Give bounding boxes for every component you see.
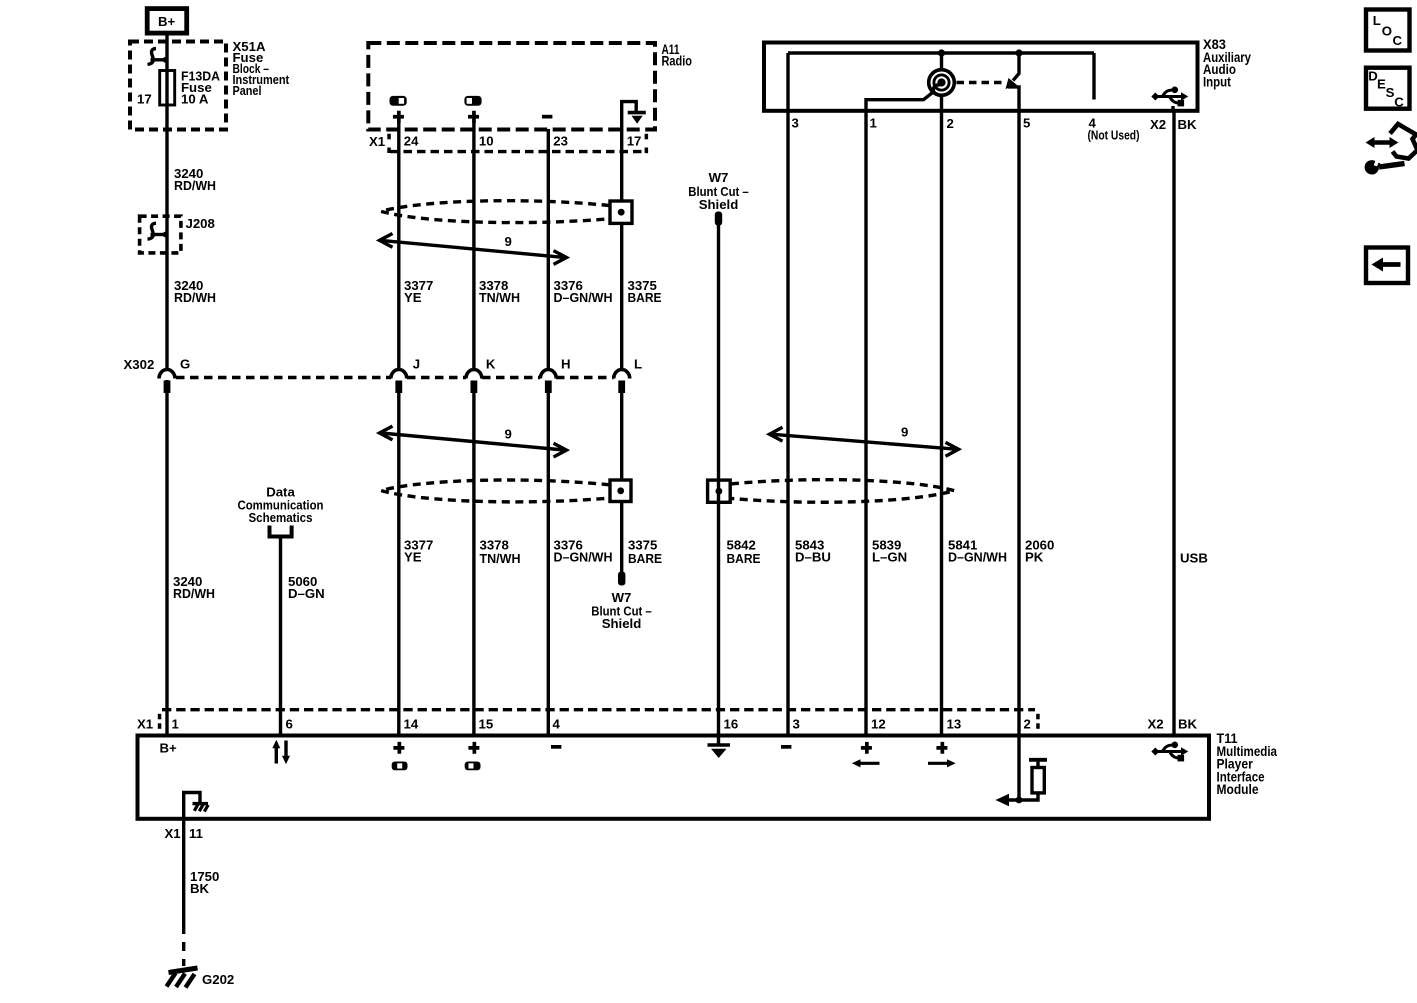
svg-text:1: 1 [172,717,179,732]
svg-text:2: 2 [947,116,954,131]
svg-text:12: 12 [871,717,886,732]
svg-text:Module: Module [1217,782,1259,797]
USB receptacle icon in T11 [1151,742,1188,762]
wire 1750 BK to ground [182,820,185,925]
svg-text:D–GN/WH: D–GN/WH [948,550,1007,565]
blunt cut terminal W7 (top of 5842 shield) [688,170,749,226]
svg-text:4: 4 [553,717,561,732]
svg-text:B+: B+ [160,741,178,756]
node B+ battery feed [147,9,187,33]
svg-text:C: C [1393,33,1403,48]
blunt cut terminal W7 (bottom of 3375 shield) [591,572,652,632]
node junction dot pin 2 [938,49,945,56]
shield drain terminal (middle left) on 3375 [610,480,631,502]
wire 5843 D-BU X83 pin 3 to T11 [786,112,789,735]
svg-text:10 A: 10 A [181,92,209,107]
wire X302 J to T11 pin 14 [397,381,400,736]
svg-text:X1: X1 [165,826,181,841]
svg-text:BARE: BARE [628,551,662,566]
T11 connector pin row X1 [137,710,1198,732]
wire 5842 BARE from W7 to T11 pin 16 [717,224,720,735]
T11 pin 2 internal resistor with arrow [996,735,1048,806]
twisted-leads symbol (top) with count 9 [380,234,567,265]
wire 5841 D-GN/WH X83 pin 2 to T11 [940,112,943,735]
svg-text:16: 16 [724,717,739,732]
twisted-leads symbol (middle right) with count 9 [770,425,959,457]
icon back arrow box [1366,248,1408,284]
svg-text:USB: USB [1180,551,1208,566]
svg-text:13: 13 [947,717,962,732]
svg-text:TN/WH: TN/WH [480,551,521,566]
shield drain terminal (middle right) on 5842 [708,480,731,502]
radio internal ground pin 17 [622,102,646,130]
svg-text:L: L [1373,13,1381,28]
svg-text:2: 2 [1024,717,1031,732]
svg-text:G: G [180,357,190,372]
radio speaker plug icon pin 24 [390,96,407,106]
svg-text:BK: BK [1178,717,1198,732]
svg-text:H: H [561,357,571,372]
svg-text:C: C [1394,95,1404,110]
wire X302 to T11 pin 1 [165,380,168,735]
radio - polarity pin 23 [542,115,552,119]
T11 pin 16 internal ground [708,735,731,758]
icon LOC box [1366,10,1410,51]
wire X302 K to T11 pin 15 [472,381,475,736]
svg-text:Radio: Radio [662,54,693,69]
shield ellipse (top) [381,201,610,223]
svg-text:RD/WH: RD/WH [174,290,216,305]
svg-text:L–GN: L–GN [872,550,907,565]
USB receptacle icon in X83 [1151,87,1188,113]
svg-text:PK: PK [1025,550,1044,565]
svg-text:10: 10 [479,134,494,149]
svg-text:X1: X1 [137,717,153,732]
svg-text:11: 11 [189,826,203,841]
svg-text:1: 1 [870,116,877,131]
X302 terminal J [391,357,420,394]
svg-text:W7: W7 [709,170,729,185]
svg-text:Input: Input [1203,75,1231,90]
T11 pin 4 - polarity [551,745,561,749]
svg-text:9: 9 [505,427,512,442]
X302 terminal G [159,357,190,394]
radio speaker plug icon pin 10 [464,96,481,106]
wire 2060 PK X83 pin 5 to T11 [1017,112,1020,735]
svg-text:K: K [486,357,496,372]
wire X302 H to T11 pin 4 [547,381,550,736]
wire 5839 L-GN X83 pin 1 to T11 [864,112,867,735]
module T11 box [138,736,1210,819]
svg-text:17: 17 [137,92,152,107]
T11 pin 3 - polarity [781,745,791,749]
icon DESC box [1366,68,1410,110]
wire radio pin 17 to X302 L, 3375 BARE [620,129,623,368]
svg-text:BARE: BARE [628,290,662,305]
svg-text:6: 6 [286,717,293,732]
svg-text:15: 15 [479,717,494,732]
audio jack tip-ring-sleeve symbol [929,53,955,112]
wire radio pin 23 to X302 H, 3376 D-GN/WH [547,129,550,368]
shield ellipse (middle right) [731,480,955,503]
node Data Communication Schematics [238,485,324,537]
X302 terminal K [466,357,496,394]
twisted-leads symbol (middle left) with count 9 [380,426,567,457]
svg-text:D–GN/WH: D–GN/WH [554,290,613,305]
svg-text:23: 23 [553,134,568,149]
svg-text:D–GN: D–GN [288,586,325,601]
svg-text:9: 9 [901,425,908,440]
radio connector pin row X1 [369,134,648,154]
svg-text:O: O [1382,24,1392,39]
wire radio pin 10 to X302 K, 3378 TN/WH [472,121,475,368]
svg-text:X1: X1 [369,134,385,149]
svg-text:X2: X2 [1150,117,1166,132]
T11 pin 15 + and plug icon [465,742,481,770]
svg-text:J208: J208 [186,216,215,231]
ground G202 [167,968,235,988]
splice J208 [140,216,215,253]
svg-text:BK: BK [190,881,210,896]
icon jump navigation (arrows and wrench) [1366,124,1417,173]
svg-text:BK: BK [1178,117,1198,132]
svg-text:RD/WH: RD/WH [174,178,216,193]
svg-text:9: 9 [505,234,512,249]
svg-text:X302: X302 [124,357,155,372]
svg-text:S: S [1386,85,1395,100]
svg-text:TN/WH: TN/WH [479,290,520,305]
fuse F13DA [160,71,175,106]
svg-text:24: 24 [404,134,419,149]
T11 pin 6 serial data arrows [272,740,290,764]
svg-text:D–BU: D–BU [795,550,831,565]
radio + polarity pin 10 [468,111,479,123]
svg-text:B+: B+ [158,14,176,29]
svg-text:Shield: Shield [602,616,642,631]
svg-text:YE: YE [404,290,422,305]
wire B+ to fuse block [165,33,168,368]
svg-text:G202: G202 [202,972,234,987]
svg-text:D–GN/WH: D–GN/WH [554,550,613,565]
T11 pin 12 + with left arrow [852,742,880,768]
shield drain terminal (top) on 3375 [610,201,632,223]
connector X302 row [124,357,614,378]
wire serial data 5060 D-GN to T11 pin 6 [279,537,282,736]
wire X302 L to W7 blunt cut [620,381,623,573]
radio + polarity pin 24 [393,111,404,123]
svg-text:3: 3 [792,116,799,131]
svg-text:BARE: BARE [727,551,761,566]
svg-text:RD/WH: RD/WH [173,586,215,601]
svg-text:X2: X2 [1148,717,1164,732]
svg-text:14: 14 [404,717,419,732]
svg-text:3: 3 [793,717,800,732]
svg-text:J: J [413,357,420,372]
wire radio pin 24 to X302 J, 3377 YE [397,121,400,368]
X302 terminal H [540,357,570,394]
radio A11 box [368,43,655,130]
detect switch dashed link [957,81,1007,84]
svg-text:5: 5 [1023,116,1030,131]
detect switch blade pin 5 [1006,53,1020,112]
svg-text:YE: YE [404,550,422,565]
wire USB BK X83 X2 to T11 [1172,112,1175,735]
svg-text:17: 17 [627,134,642,149]
splice tap in fuse block [148,49,169,65]
fuse block X51A box [130,42,226,130]
shield ellipse (middle left) [381,480,610,502]
svg-text:Schematics: Schematics [249,510,313,525]
X83 pin 1 sleeve contact wire with hook [866,85,940,112]
svg-text:Panel: Panel [233,83,262,98]
X302 terminal L [614,357,642,394]
X83 internal bus wire [788,51,1094,54]
svg-text:(Not Used): (Not Used) [1088,128,1140,143]
svg-text:L: L [634,357,642,372]
aux input jack X83 box [764,43,1198,111]
svg-text:Shield: Shield [699,197,739,212]
X83 pin 4 stub (not used) [1092,53,1095,100]
T11 pin 14 + and plug icon [392,742,408,770]
T11 pin 13 + with right arrow [928,742,956,768]
X83 pin 3 riser [786,53,789,112]
node junction dot pin 5 [1015,49,1022,56]
T11 pin 11 internal chassis ground [184,793,209,821]
